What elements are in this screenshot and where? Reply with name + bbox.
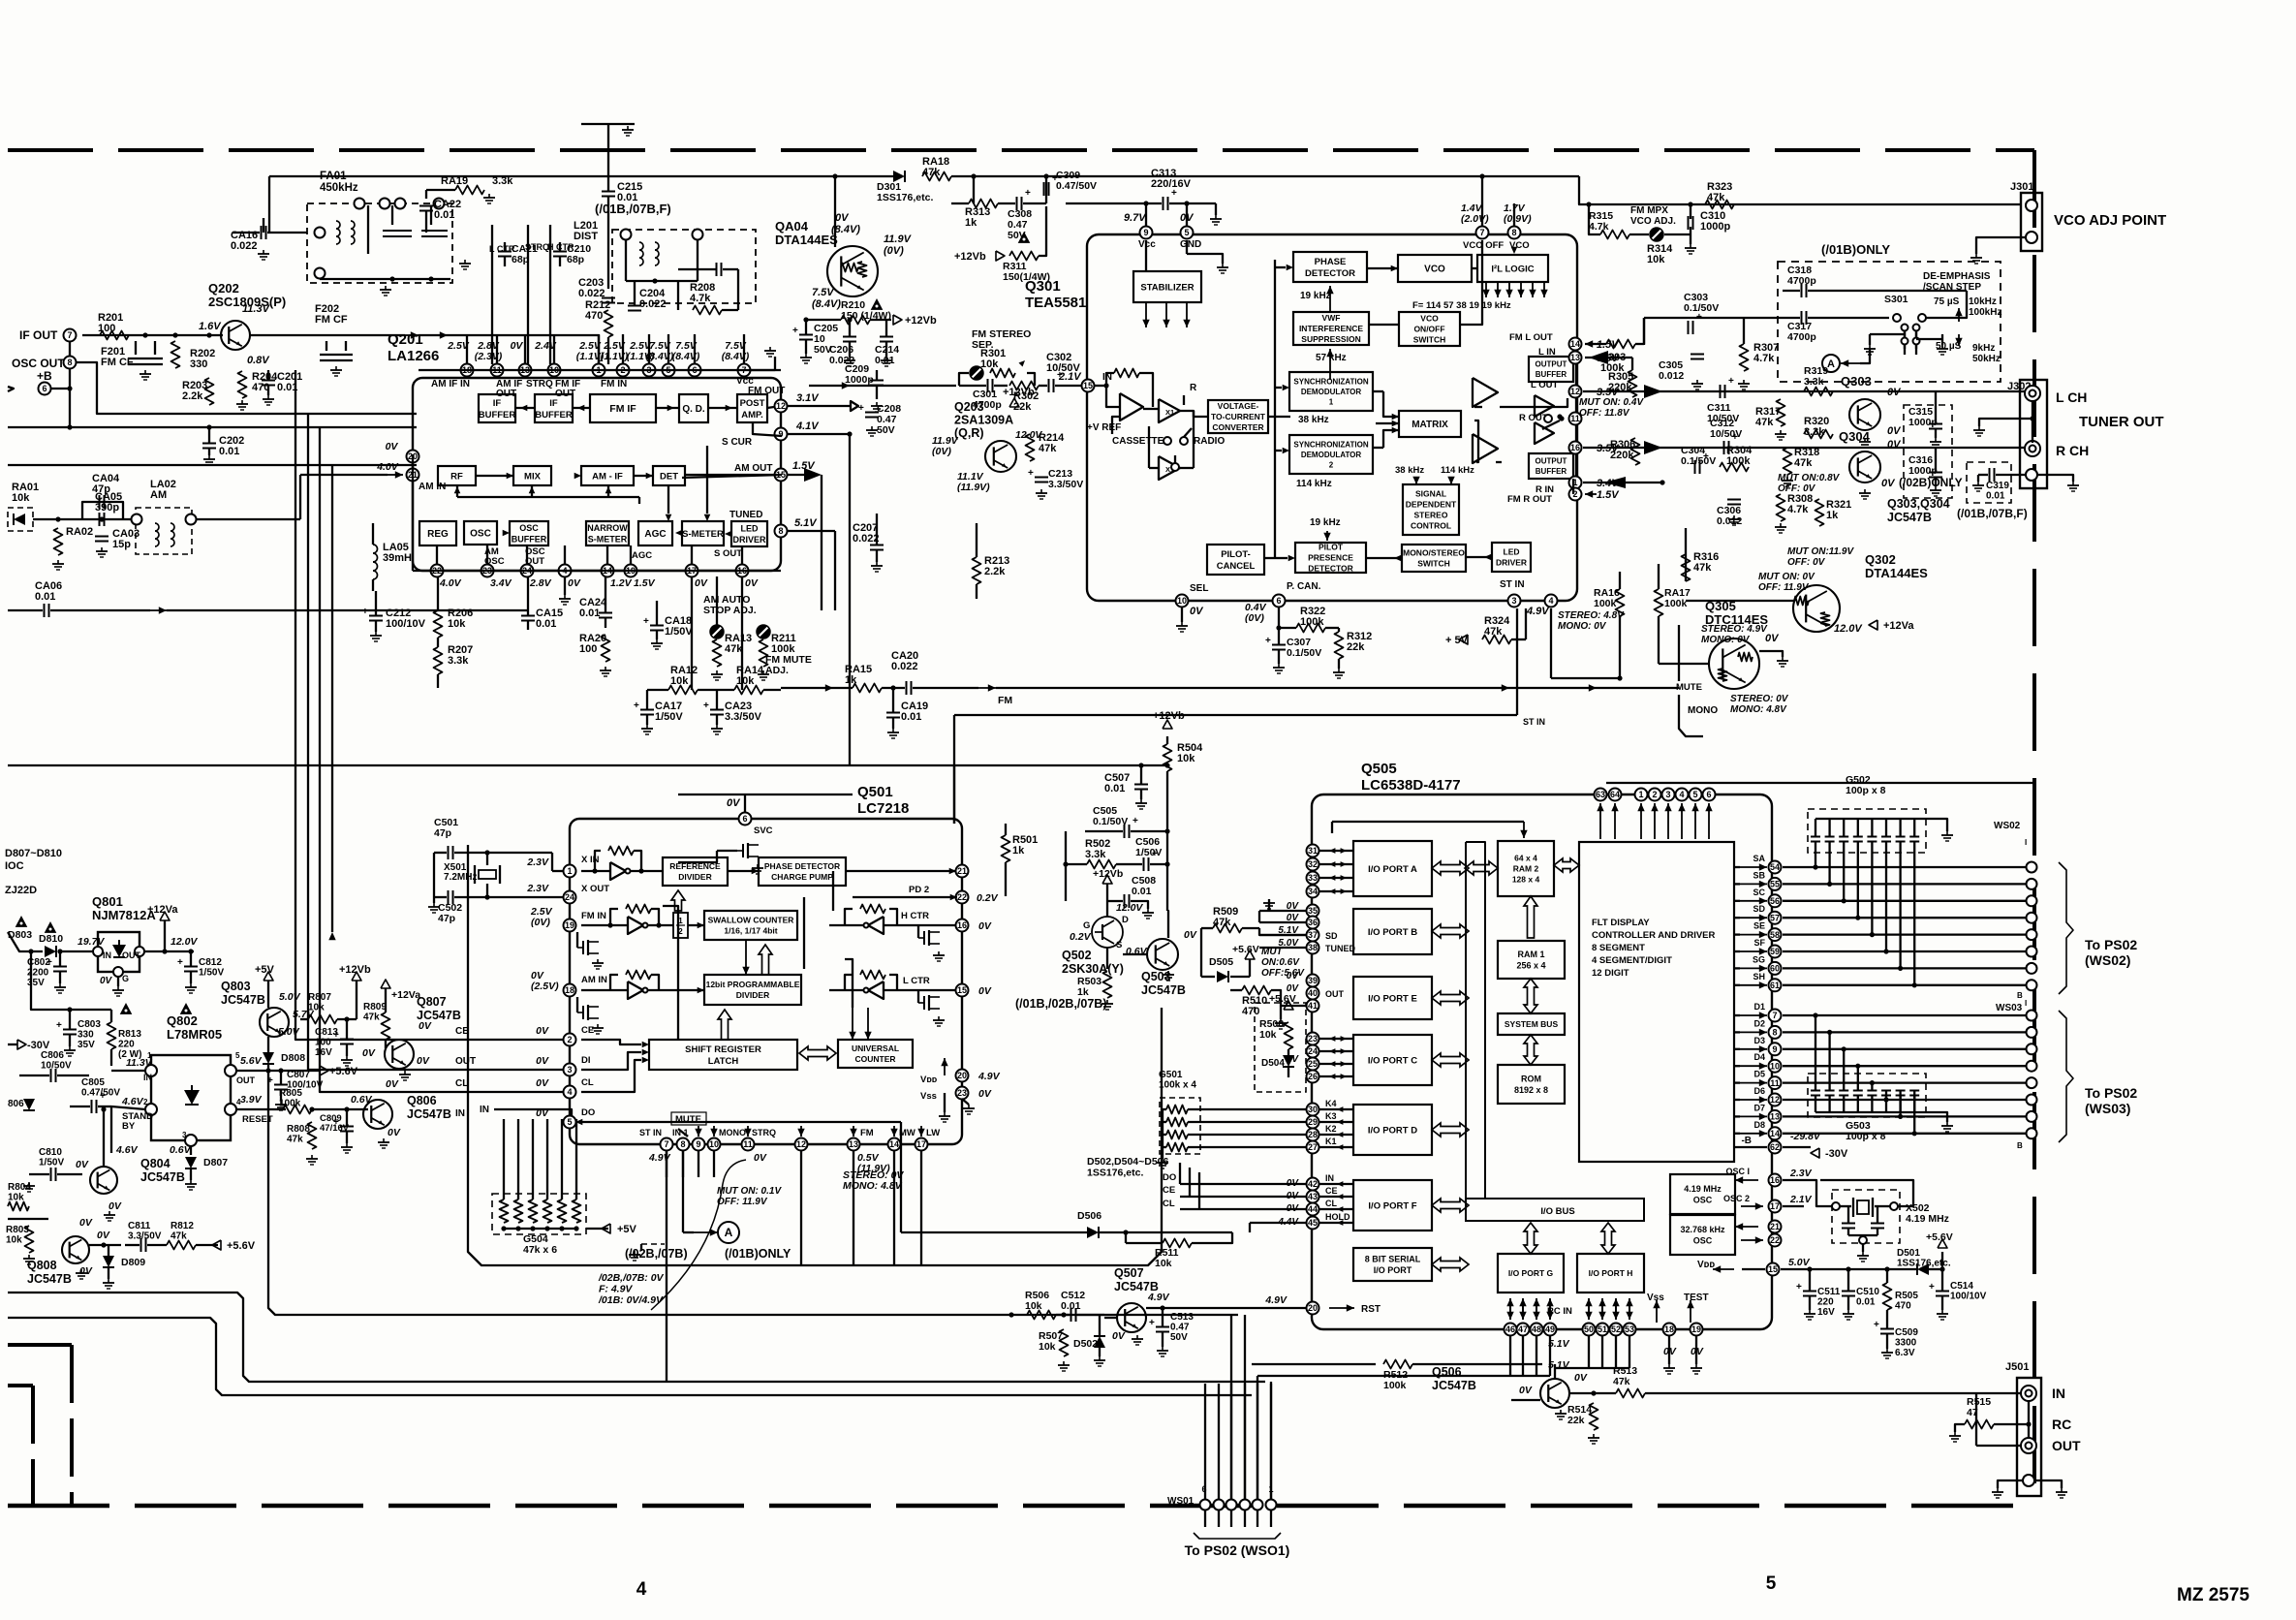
resistor R306 — [1631, 438, 1640, 465]
svg-text:VCO: VCO — [1420, 313, 1439, 323]
wire D1 to WS03 — [1783, 1014, 2027, 1016]
capacitor CA04 loop — [82, 502, 123, 519]
fat arrow 12bit — [718, 1010, 731, 1040]
svg-text:27: 27 — [1308, 1142, 1318, 1152]
svg-text:REFERENCE: REFERENCE — [669, 861, 721, 871]
svg-text:3.3/50V: 3.3/50V — [128, 1231, 162, 1242]
pin 11 Q501 bottom — [742, 1138, 755, 1151]
svg-text:114 kHz: 114 kHz — [1441, 465, 1474, 476]
svg-text:47p: 47p — [434, 827, 451, 839]
pin 42 Q505 — [1307, 1178, 1319, 1191]
wire F202 to LA1266 pin1 path — [591, 335, 599, 364]
svg-text:23: 23 — [957, 1088, 967, 1098]
svg-text:Q503: Q503 — [1141, 970, 1171, 983]
resistor R308 — [1777, 494, 1785, 521]
svg-text:47k x 6: 47k x 6 — [523, 1244, 557, 1256]
svg-text:DET: DET — [660, 471, 678, 482]
svg-text:22: 22 — [957, 892, 967, 902]
pin 50 Q505 — [1583, 1324, 1596, 1336]
svg-text:41: 41 — [1308, 1001, 1318, 1011]
svg-text:28: 28 — [1308, 1130, 1318, 1139]
IC Q505 outline — [1312, 794, 1772, 1329]
svg-text:L78MR05: L78MR05 — [167, 1027, 222, 1042]
svg-text:52: 52 — [1611, 1324, 1621, 1334]
wire D3 to WS03 — [1783, 1048, 2027, 1050]
svg-text:4.19 MHz: 4.19 MHz — [1684, 1184, 1722, 1194]
svg-text:MONO: 0V: MONO: 0V — [1701, 635, 1751, 645]
svg-text:3: 3 — [567, 1065, 572, 1075]
diode D504 — [1283, 1055, 1294, 1067]
pin9 wire scur — [753, 422, 782, 436]
svg-text:8: 8 — [778, 526, 783, 536]
svg-text:PRESENCE: PRESENCE — [1308, 552, 1353, 562]
pin 10 LA1266 top — [548, 364, 561, 377]
svg-text:32: 32 — [1308, 859, 1318, 869]
svg-text:1.5V: 1.5V — [1597, 489, 1620, 501]
transistor Q503 — [1147, 939, 1178, 970]
svg-text:47k: 47k — [922, 167, 941, 178]
svg-text:+5V: +5V — [255, 964, 275, 976]
resistor R812 — [167, 1241, 196, 1250]
svg-text:G501: G501 — [1159, 1070, 1183, 1080]
wire pin16 down — [741, 576, 743, 690]
resistor RA14 — [734, 686, 763, 695]
pin 12 Q501 bottom — [795, 1138, 808, 1151]
tag +5.6V R812 — [212, 1240, 221, 1250]
svg-text:JC547B: JC547B — [221, 993, 265, 1007]
block FM IF — [590, 394, 656, 422]
svg-text:3: 3 — [182, 1131, 187, 1139]
pin 14 TEA5581 right — [1569, 338, 1582, 351]
resistor R503 — [1103, 971, 1112, 998]
pin 48 Q505 — [1531, 1324, 1543, 1336]
svg-text:10kHz: 10kHz — [1969, 296, 1997, 307]
Q501 outer loop wire — [468, 845, 1162, 1265]
pin 31 Q505 — [1307, 845, 1319, 857]
svg-text:Q502: Q502 — [1062, 949, 1092, 962]
long wire y441 — [8, 426, 417, 428]
svg-text:FM IF: FM IF — [609, 403, 636, 415]
pin 3 Q505 top — [1662, 789, 1675, 801]
svg-text:15p: 15p — [112, 539, 131, 550]
hctr mosfet — [923, 931, 925, 945]
fat arrow serial bus — [1432, 1258, 1469, 1271]
X502 contents — [1832, 1202, 1840, 1210]
pin 2 Q505 top — [1649, 789, 1661, 801]
svg-text:(0V): (0V) — [884, 245, 904, 257]
svg-text:Q202: Q202 — [208, 281, 239, 296]
svg-text:+5.6V: +5.6V — [329, 1066, 358, 1077]
capacitor C203 — [602, 297, 615, 299]
svg-text:OFF: 0V: OFF: 0V — [1787, 557, 1826, 568]
svg-text:35V: 35V — [78, 1040, 95, 1050]
svg-text:13: 13 — [1570, 353, 1580, 362]
svg-text:BUFFER: BUFFER — [479, 410, 516, 421]
terminal WS02 SC — [2027, 895, 2037, 906]
pin 8 D2 — [1769, 1026, 1782, 1039]
capacitor CA24 — [599, 612, 612, 614]
svg-text:PHASE DETECTOR: PHASE DETECTOR — [764, 861, 840, 871]
pin 60 SG — [1769, 962, 1782, 975]
svg-text:Q803: Q803 — [221, 980, 251, 993]
svg-text:5.0V: 5.0V — [279, 991, 301, 1003]
wire top Q505 rail — [1606, 782, 2034, 784]
block IF BUFFER 1 — [479, 394, 515, 422]
diode CA02 area dashed — [8, 508, 33, 531]
X1 wiring — [1143, 408, 1159, 410]
svg-text:12: 12 — [1770, 1095, 1780, 1105]
svg-text:40: 40 — [1308, 988, 1318, 998]
svg-text:Vss: Vss — [920, 1091, 937, 1102]
svg-text:RA19: RA19 — [441, 175, 468, 187]
resistor R808 — [308, 1122, 317, 1149]
capacitor C509 — [1880, 1328, 1894, 1330]
wire CE route — [295, 370, 563, 1040]
transistor Q803 — [260, 1008, 289, 1037]
svg-text:Q305: Q305 — [1705, 599, 1736, 613]
wire SG to WS02 — [1783, 967, 2027, 969]
TEA5581 internal left bus — [1274, 260, 1276, 558]
svg-text:2.3V: 2.3V — [526, 883, 549, 894]
svg-text:4.7k: 4.7k — [1589, 221, 1609, 233]
capacitor C313 — [1163, 197, 1164, 210]
pot RA13 — [710, 625, 724, 639]
svg-text:1.2V: 1.2V — [610, 577, 633, 589]
wire D4 to WS03 — [1783, 1065, 2027, 1067]
svg-text:CHARGE PUMP: CHARGE PUMP — [771, 872, 833, 882]
resistor RA16 — [1616, 589, 1625, 616]
block IO BUS — [1466, 1199, 1644, 1221]
svg-text:+: + — [703, 701, 709, 711]
svg-text:9.7V: 9.7V — [1124, 212, 1147, 224]
svg-text:5: 5 — [567, 1117, 572, 1127]
svg-text:Q807: Q807 — [417, 995, 447, 1009]
svg-text:0.01: 0.01 — [579, 607, 600, 619]
svg-text:0V: 0V — [536, 1077, 549, 1089]
transistor Q305 — [1709, 639, 1759, 689]
svg-text:0V: 0V — [1887, 425, 1902, 437]
row3 arrows — [503, 530, 510, 537]
svg-text:Vᴅᴅ: Vᴅᴅ — [920, 1075, 938, 1085]
pin 44 Q505 — [1307, 1203, 1319, 1216]
svg-text:220k: 220k — [1610, 450, 1634, 461]
block arrows row1 — [520, 405, 527, 412]
input amp triangle — [1120, 393, 1143, 421]
resistor R206 — [434, 610, 443, 638]
svg-text:(0V): (0V) — [531, 917, 550, 928]
svg-text:0.012: 0.012 — [1659, 370, 1684, 382]
ground mid — [464, 260, 466, 264]
arrow into pin14 — [1585, 343, 1606, 345]
block IO PORT B — [1353, 909, 1432, 954]
svg-text:OUT: OUT — [2052, 1438, 2081, 1453]
wire top rail to VCO — [951, 175, 1579, 177]
terminal WS02 SB — [2027, 879, 2037, 889]
ground top right of LA1266 — [751, 357, 775, 370]
block VCO ON/OFF SWITCH — [1399, 312, 1460, 346]
diode D301 — [893, 171, 905, 182]
svg-text:/01B: 0V/4.9V: /01B: 0V/4.9V — [598, 1294, 664, 1306]
svg-text:0.01: 0.01 — [219, 446, 239, 457]
svg-text:I: I — [2025, 838, 2027, 847]
transistor Q202 — [221, 321, 250, 350]
svg-text:3.3k: 3.3k — [1804, 426, 1825, 438]
fat arrow ram1 sysbus — [1524, 979, 1537, 1013]
svg-text:Q507: Q507 — [1114, 1266, 1144, 1280]
resistor R317 — [1777, 399, 1785, 426]
svg-text:0V: 0V — [386, 441, 399, 452]
svg-text:Vᴅᴅ: Vᴅᴅ — [1697, 1260, 1715, 1270]
svg-text:12.0V: 12.0V — [1116, 902, 1143, 914]
pin 12 LA1266 — [775, 400, 788, 413]
svg-text:RAM 1: RAM 1 — [1517, 950, 1544, 959]
svg-text:CL: CL — [1163, 1199, 1175, 1209]
svg-text:1/50V: 1/50V — [665, 626, 693, 638]
wire pin8 out — [788, 530, 835, 532]
diode 806 — [23, 1099, 35, 1110]
ground stub 39 — [1280, 1006, 1282, 1019]
row2 arrows — [507, 473, 513, 480]
svg-text:D502,D504~D506: D502,D504~D506 — [1087, 1156, 1169, 1168]
svg-text:10/50V: 10/50V — [1710, 428, 1742, 440]
svc mosfet — [742, 844, 744, 857]
svg-text:3: 3 — [1665, 790, 1670, 799]
svg-text:IOC: IOC — [5, 860, 24, 872]
block VWF INTERFERENCE SUPPRESSION — [1293, 312, 1369, 345]
terminal WS01 3 — [1240, 1500, 1251, 1511]
svg-text:47k: 47k — [1693, 562, 1712, 574]
svg-text:16V: 16V — [1817, 1307, 1835, 1318]
svg-text:D7: D7 — [1753, 1103, 1765, 1112]
svg-text:60: 60 — [1770, 964, 1780, 974]
svg-text:D807~D810: D807~D810 — [5, 848, 62, 859]
svg-text:D501: D501 — [1897, 1248, 1920, 1259]
svg-text:470: 470 — [1895, 1301, 1911, 1312]
svg-text:R813: R813 — [118, 1029, 141, 1040]
transistor Q302 — [1793, 585, 1840, 632]
svg-text:+: + — [792, 326, 798, 336]
dashed box G504 — [492, 1194, 586, 1234]
svg-text:FM IN: FM IN — [601, 379, 627, 389]
pin 21 Q505 — [1769, 1221, 1782, 1233]
svg-text:J501: J501 — [2005, 1361, 2029, 1373]
svg-text:+: + — [1152, 849, 1158, 859]
resistor R803 — [25, 1226, 34, 1253]
svg-text:15: 15 — [1768, 1264, 1778, 1274]
svg-text:2.2k: 2.2k — [984, 566, 1006, 577]
svg-text:100p x 8: 100p x 8 — [1846, 1131, 1886, 1142]
pin 8 LA1266 right — [775, 525, 788, 538]
resistor R514 — [1590, 1403, 1598, 1430]
svg-text:5.0V: 5.0V — [1788, 1257, 1811, 1268]
pin 1 LA1266 top — [593, 364, 605, 377]
pin 37 Q505 — [1307, 929, 1319, 942]
resistor RA18 — [922, 172, 951, 181]
svg-text:51: 51 — [1598, 1324, 1607, 1334]
svg-text:0.47/50V: 0.47/50V — [1056, 180, 1097, 192]
block RAM1 — [1498, 941, 1565, 979]
svg-text:38 kHz: 38 kHz — [1395, 465, 1424, 476]
svg-text:390p: 390p — [95, 502, 119, 514]
svg-text:(WS02): (WS02) — [2085, 952, 2130, 968]
resistor R323 — [1705, 201, 1734, 209]
svg-text:STOP ADJ.: STOP ADJ. — [703, 605, 757, 616]
svg-text:1SS176,etc.: 1SS176,etc. — [877, 192, 933, 203]
svg-text:FM IN: FM IN — [581, 911, 606, 921]
block SYSTEM BUS — [1498, 1013, 1565, 1035]
pin 55 SB — [1769, 878, 1782, 890]
svg-text:IF OUT: IF OUT — [19, 328, 58, 342]
svg-text:1.6V: 1.6V — [199, 321, 222, 332]
svg-text:FM L OUT: FM L OUT — [1509, 332, 1553, 343]
svg-text:ADJ.: ADJ. — [765, 665, 789, 676]
svg-text:46: 46 — [1505, 1324, 1515, 1334]
svg-text:+5.6V: +5.6V — [1269, 993, 1296, 1005]
capacitor C502 — [448, 890, 450, 904]
block PHASE DETECTOR — [1293, 252, 1367, 282]
page border top dashed — [8, 148, 2034, 152]
pin 29 Q505 — [1307, 1116, 1319, 1129]
svg-text:G: G — [1083, 920, 1090, 931]
wire SB to WS02 — [1783, 883, 2027, 885]
svg-text:1k: 1k — [965, 217, 977, 229]
block S-METER — [682, 521, 724, 545]
svg-text:7.5V: 7.5V — [812, 287, 835, 298]
svg-text:QA04: QA04 — [775, 219, 809, 234]
svg-text:47p: 47p — [438, 913, 455, 924]
svg-text:Q. D.: Q. D. — [682, 404, 705, 415]
svg-text:2.3V: 2.3V — [1789, 1168, 1813, 1179]
svg-text:29: 29 — [1308, 1117, 1318, 1127]
resistor R214 — [1026, 434, 1035, 461]
svg-text:0.2V: 0.2V — [977, 892, 999, 904]
svg-text:220: 220 — [118, 1040, 135, 1050]
block VCO — [1398, 255, 1472, 282]
J302 out ground — [2037, 475, 2073, 482]
svg-text:3.3/50V: 3.3/50V — [725, 711, 762, 723]
svg-text:0V: 0V — [1180, 212, 1195, 224]
transformer L201 DIST dashed box — [612, 230, 756, 303]
pin 52 Q505 — [1610, 1324, 1623, 1336]
svg-text:FM MPX: FM MPX — [1630, 205, 1668, 216]
wire pin8 from dephasis — [1513, 203, 1515, 226]
svg-text:2.8V: 2.8V — [529, 577, 552, 589]
half divider box — [673, 913, 688, 938]
svg-text:Q302: Q302 — [1865, 552, 1896, 567]
svg-text:0.012: 0.012 — [1717, 515, 1742, 527]
svg-text:7: 7 — [664, 1139, 668, 1149]
pin 11 mute switch — [1544, 415, 1552, 422]
long wire C — [268, 1071, 1238, 1315]
AM signal arrow — [150, 609, 167, 611]
long wire D — [8, 764, 781, 766]
wire LA02 out — [197, 518, 300, 520]
svg-text:AM IN: AM IN — [419, 482, 446, 492]
svg-text:0V: 0V — [754, 1152, 767, 1164]
svg-text:1.5V: 1.5V — [634, 577, 656, 589]
svg-text:2: 2 — [1652, 790, 1657, 799]
svg-text:(0V): (0V) — [932, 446, 951, 457]
pin 9 Q501 bottom — [693, 1138, 705, 1151]
svg-text:(Q,R): (Q,R) — [954, 426, 984, 440]
svg-text:0V: 0V — [386, 1078, 399, 1090]
svg-text:47k: 47k — [1213, 917, 1231, 928]
wire pin12 out — [788, 405, 843, 407]
pin 51 Q505 — [1597, 1324, 1609, 1336]
capacitor C802 — [53, 966, 67, 968]
svg-text:D809: D809 — [121, 1257, 145, 1268]
svg-text:(0V): (0V) — [1245, 612, 1264, 624]
svg-text:BUFFER: BUFFER — [512, 534, 547, 544]
svg-text:0V: 0V — [568, 577, 581, 589]
pin 24 LA1266 bottom — [521, 565, 534, 577]
svg-text:0.022: 0.022 — [578, 288, 605, 299]
svg-text:2: 2 — [1329, 460, 1334, 469]
capacitor C513 — [1156, 1326, 1169, 1328]
svg-text:2.3V: 2.3V — [526, 857, 549, 868]
svg-text:5.1V: 5.1V — [1548, 1338, 1570, 1350]
svg-text:NARROW: NARROW — [587, 523, 628, 533]
svg-text:3.3k: 3.3k — [492, 175, 513, 187]
svg-text:68p: 68p — [512, 254, 529, 265]
resistor R321 — [1815, 499, 1824, 526]
svg-text:BUFFER: BUFFER — [535, 410, 573, 421]
svg-text:SF: SF — [1753, 938, 1765, 948]
pin 53 Q505 — [1624, 1324, 1636, 1336]
capacitor C307 — [1272, 644, 1286, 646]
block FLT DISPLAY — [1579, 842, 1734, 1162]
wire pin8 to A — [682, 1151, 684, 1232]
svg-text:HOLD: HOLD — [1325, 1212, 1350, 1222]
svg-text:SYNCHRONIZATION: SYNCHRONIZATION — [1293, 440, 1368, 449]
svg-text:BUFFER: BUFFER — [1536, 370, 1567, 379]
capacitor C806 — [50, 1069, 52, 1082]
svg-text:OUT: OUT — [525, 556, 544, 567]
G504 +5V tag — [586, 1228, 608, 1230]
circle A marker 2 — [718, 1222, 739, 1243]
svg-text:(8.4V): (8.4V) — [812, 298, 841, 310]
pin 8 Q501 bottom — [677, 1138, 690, 1151]
capacitor C212 — [369, 615, 383, 617]
svg-text:CE: CE — [581, 1025, 594, 1036]
svg-text:R807: R807 — [308, 992, 331, 1003]
block IF BUFFER 2 — [535, 394, 573, 422]
svg-text:VCO OFF: VCO OFF — [1463, 240, 1504, 251]
svg-text:PHASE: PHASE — [1315, 257, 1347, 267]
svg-text:0V: 0V — [536, 1025, 549, 1037]
X1 triangle 2 — [1159, 456, 1180, 480]
svg-text:MUT ON: 0.1V: MUT ON: 0.1V — [717, 1186, 782, 1197]
svg-text:LA1266: LA1266 — [388, 348, 439, 364]
svg-text:1000p: 1000p — [1908, 417, 1938, 428]
svg-text:4.9V: 4.9V — [1264, 1294, 1288, 1306]
svg-text:Q301: Q301 — [1025, 278, 1061, 295]
svg-text:11.3V: 11.3V — [242, 303, 271, 315]
resistor R212 — [605, 310, 613, 337]
capacitor C812 — [184, 966, 198, 968]
svg-text:STEREO: 4.8V: STEREO: 4.8V — [1558, 610, 1625, 621]
long wire B — [8, 1318, 1252, 1395]
svg-text:1: 1 — [1638, 790, 1643, 799]
transformer FA01 450kHz dashed box — [307, 203, 452, 283]
ground pin4 — [564, 576, 566, 595]
pin 1 TEA5581 right — [1569, 477, 1582, 489]
amp triangle R — [1473, 434, 1498, 463]
svg-text:100k x 4: 100k x 4 — [1159, 1080, 1196, 1091]
pin 19 FM IN — [564, 919, 576, 932]
svg-text:11.9V: 11.9V — [884, 234, 913, 245]
svg-text:R CH: R CH — [2056, 443, 2089, 458]
